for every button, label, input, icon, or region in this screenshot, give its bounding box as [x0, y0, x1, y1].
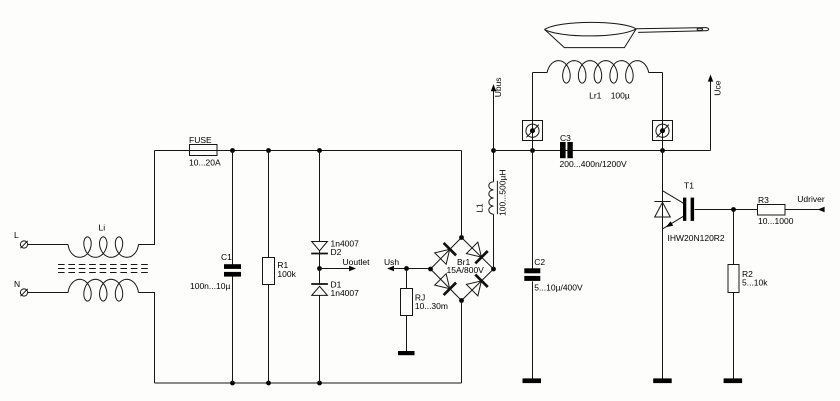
wire D2 anode [319, 151, 321, 242]
node gate / R2 [731, 207, 736, 212]
svg-text:N: N [14, 279, 20, 289]
bridge diode lower-right [466, 275, 488, 297]
svg-text:10...30m: 10...30m [415, 301, 448, 311]
wire bus rail [494, 150, 711, 152]
wire Li bottom to bottom rail [138, 293, 154, 384]
node bridge top [459, 235, 464, 240]
ground R2 [724, 378, 743, 383]
svg-text:R3: R3 [758, 195, 769, 205]
terminal N [14, 279, 28, 296]
svg-text:C2: C2 [534, 257, 545, 267]
svg-text:5...10k: 5...10k [742, 278, 768, 288]
current sensor left [523, 121, 543, 142]
node bridge left [428, 267, 433, 272]
diode D2 [311, 239, 359, 269]
wire gate [695, 209, 758, 211]
inductor Li [68, 223, 138, 302]
arrow Ush [384, 257, 431, 271]
bridge rectifier Br1 [431, 238, 494, 301]
arrow Uoutlet [320, 257, 371, 271]
wire C2 bottom [532, 281, 534, 379]
node bottom rail / D1 [317, 381, 322, 386]
wire R1 bottom [268, 285, 270, 384]
transistor T1 [663, 181, 725, 244]
wire Lr1 to right column [649, 72, 663, 74]
svg-text:C1: C1 [221, 252, 232, 262]
svg-text:100k: 100k [277, 269, 296, 279]
node Ush / RJ [404, 266, 409, 271]
wire R1 top [268, 151, 270, 258]
resistor R1 [263, 258, 297, 285]
svg-text:Udriver: Udriver [797, 194, 825, 204]
wire top rail [155, 150, 462, 152]
wire tank left column [532, 73, 534, 151]
wire bottom rail [155, 382, 462, 384]
svg-text:200...400n/1200V: 200...400n/1200V [560, 159, 627, 169]
ground RJ [398, 351, 415, 355]
svg-text:100...500µH: 100...500µH [498, 170, 508, 216]
node Uoutlet [317, 266, 322, 271]
current sensor right [653, 121, 673, 142]
svg-text:Uoutlet: Uoutlet [343, 257, 371, 267]
inductor L1 [474, 170, 507, 216]
svg-text:15A/800V: 15A/800V [447, 265, 485, 275]
svg-text:FUSE: FUSE [189, 135, 212, 145]
wire bridge bottom to bottom rail [461, 301, 463, 384]
bridge diode upper-right [466, 242, 488, 264]
svg-text:IHW20N120R2: IHW20N120R2 [668, 233, 725, 243]
capacitor C3 [560, 133, 627, 169]
Li core [58, 265, 149, 273]
node bridge bottom [459, 298, 464, 303]
wire N to Li [28, 292, 69, 294]
wire R2 top [733, 210, 735, 265]
bridge diode lower-left [434, 273, 456, 295]
wire C1 top [232, 151, 234, 266]
resistor R2 [728, 265, 768, 293]
resistor RJ [401, 289, 448, 316]
arrow Udriver [785, 194, 825, 212]
wire emitter [662, 217, 664, 379]
ground C2 [523, 378, 542, 383]
svg-text:100µ: 100µ [611, 91, 630, 101]
wire to Lr1 left [533, 72, 548, 74]
node top rail / D2 [317, 148, 322, 153]
node bottom rail / C1 [230, 381, 235, 386]
svg-text:Ubus: Ubus [493, 77, 503, 97]
svg-text:10...20A: 10...20A [189, 158, 221, 168]
node bridge right [491, 267, 496, 272]
diode D1 [311, 269, 359, 384]
wire L1 to bus [493, 151, 495, 182]
svg-text:Uce: Uce [712, 80, 722, 95]
svg-text:L: L [14, 230, 19, 240]
svg-text:Li: Li [99, 223, 106, 233]
arrow Ubus [491, 77, 503, 150]
node bus / C2 column [530, 148, 535, 153]
node top rail / C1 [230, 148, 235, 153]
wire L to Li [28, 244, 69, 246]
svg-text:100n...10µ: 100n...10µ [190, 281, 230, 291]
frying pan (load) [545, 22, 709, 47]
wire RJ top [406, 269, 408, 289]
svg-text:1n4007: 1n4007 [331, 288, 360, 298]
node bottom rail / R1 [266, 381, 271, 386]
svg-text:T1: T1 [684, 181, 694, 191]
svg-text:Lr1: Lr1 [589, 91, 602, 101]
wire collector [662, 151, 664, 203]
wire C1 bottom [232, 277, 234, 384]
inductor Lr1 [547, 61, 648, 101]
wire R2 bottom [733, 293, 735, 379]
terminal L [14, 230, 28, 248]
fuse FUSE [189, 135, 221, 168]
capacitor C2 [524, 257, 583, 293]
svg-text:C3: C3 [560, 133, 571, 143]
bridge diode upper-left [434, 243, 456, 265]
resistor R3 [758, 195, 794, 226]
wire Li top to top rail [138, 151, 154, 245]
wire top rail to bridge top [461, 151, 463, 238]
svg-text:D2: D2 [331, 247, 342, 257]
node bus / L1 [491, 148, 496, 153]
wire RJ bottom [406, 316, 408, 352]
anti-parallel diode of T1 [654, 202, 670, 218]
svg-text:5...10µ/400V: 5...10µ/400V [534, 283, 583, 293]
node bus / collector column [660, 148, 665, 153]
svg-text:L1: L1 [474, 203, 484, 213]
wire C2 top [532, 151, 534, 269]
ground emitter [653, 378, 672, 383]
capacitor C1 [190, 252, 241, 291]
wire tank right column [662, 73, 664, 151]
arrow Uce [708, 75, 723, 151]
svg-text:Ush: Ush [384, 257, 399, 267]
wire bridge right to L1 [493, 214, 495, 269]
node top rail / R1 [266, 148, 271, 153]
svg-text:10...1000: 10...1000 [758, 216, 794, 226]
